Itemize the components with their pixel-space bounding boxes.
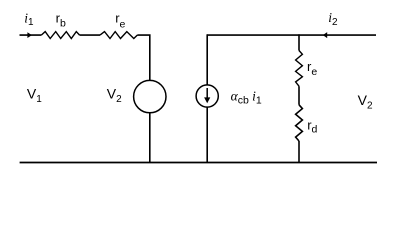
svg-text:rd: rd — [307, 117, 317, 135]
svg-text:re: re — [115, 10, 125, 30]
wire: below voltage source to bottom rail — [149, 113, 151, 163]
svg-text:re: re — [307, 59, 317, 78]
resistor Re right (vertical zigzag) — [296, 51, 303, 87]
bottom rail wire — [20, 162, 377, 164]
wire: right branch upper — [298, 34, 300, 50]
svg-text:αcb i1: αcb i1 — [231, 89, 262, 107]
current source arrow shaft — [206, 88, 208, 99]
resistor Rb (zigzag) — [41, 32, 79, 39]
voltage source V2 (circle) — [134, 80, 166, 112]
resistor Rd (vertical zigzag) — [296, 105, 303, 141]
wire: Re to corner, down to voltage source — [137, 34, 150, 80]
current arrow i2 (arrowhead, pointing left) — [323, 32, 327, 38]
wire: current-source branch upper — [206, 34, 208, 85]
svg-text:rb: rb — [56, 10, 66, 29]
current source circle — [196, 85, 218, 107]
svg-text:i1: i1 — [24, 10, 34, 28]
svg-text:V2: V2 — [358, 92, 373, 112]
wire: below current source to bottom rail — [206, 107, 208, 162]
wire: top-right rail — [207, 34, 376, 36]
current arrow i1 (arrowhead) — [27, 32, 32, 38]
svg-text:i2: i2 — [328, 10, 338, 28]
wire between Rb and Re — [80, 34, 100, 36]
resistor Re top (zigzag) — [100, 32, 137, 39]
wire between Re and Rd — [298, 86, 300, 105]
wire: below Rd to bottom rail — [298, 141, 300, 163]
wire: top-left input lead — [20, 34, 42, 36]
svg-text:V2: V2 — [107, 85, 122, 105]
svg-text:V1: V1 — [27, 85, 42, 105]
current source arrowhead (down) — [204, 97, 210, 103]
